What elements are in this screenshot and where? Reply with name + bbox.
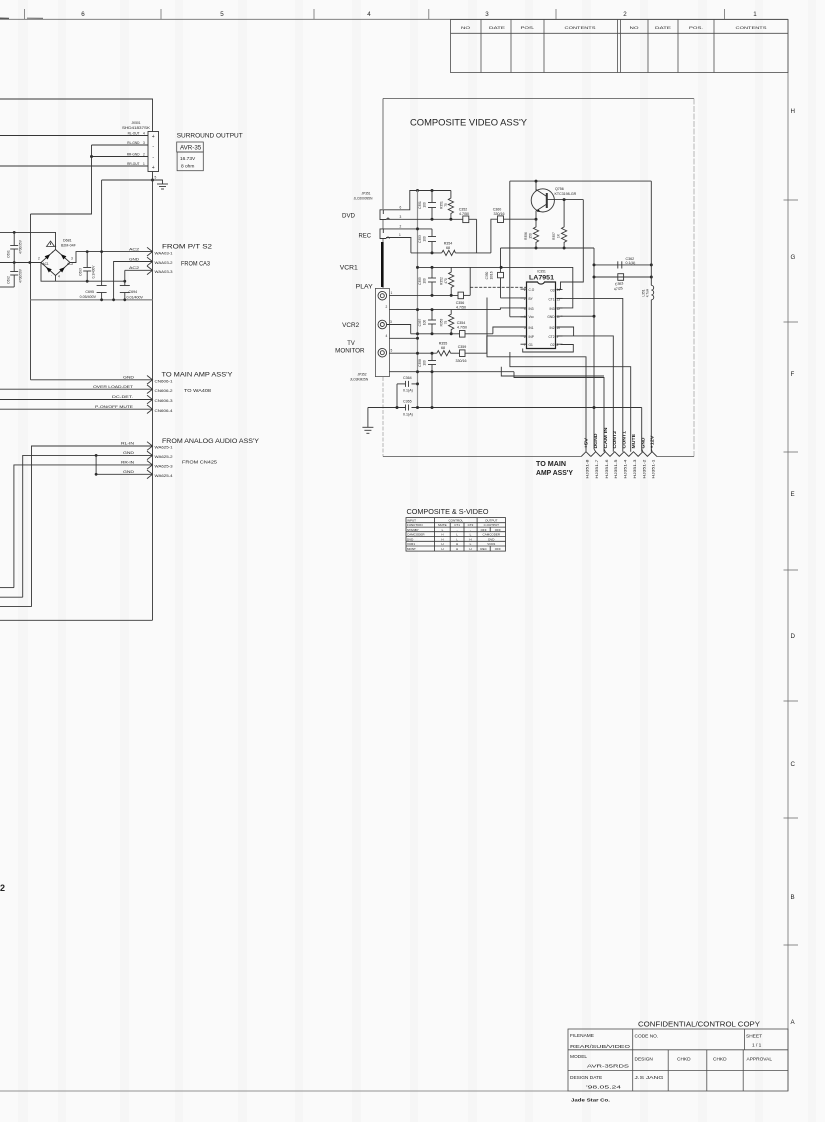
svg-text:2: 2 (38, 257, 40, 261)
svg-text:CT2: CT2 (468, 523, 474, 527)
wire gnd bus right drop (593, 248, 595, 449)
wire R354 to C360 (491, 219, 498, 253)
capacitor C355 (418, 277, 436, 285)
svg-text:FROM P/T S2: FROM P/T S2 (162, 243, 213, 250)
warning triangle (47, 241, 55, 247)
svg-text:AC1: AC1 (43, 262, 49, 266)
wire DC-DET (0, 399, 153, 401)
svg-text:CAMCODER: CAMCODER (483, 533, 501, 537)
svg-text:75: 75 (444, 321, 448, 325)
svg-text:IN2: IN2 (550, 326, 555, 330)
transistor Q756 (531, 181, 554, 219)
wire RL-IN (32, 446, 153, 607)
svg-text:IN3: IN3 (529, 307, 534, 311)
svg-text:J.S JANG: J.S JANG (635, 1075, 664, 1081)
svg-text:CONTENTS: CONTENTS (736, 26, 768, 30)
svg-text:SHEET: SHEET (746, 1034, 762, 1040)
pin 5 stub (152, 172, 154, 181)
junction (90, 155, 93, 158)
revision table (451, 20, 789, 73)
svg-text:3: 3 (390, 320, 392, 324)
svg-text:0.1/400V: 0.1/400V (92, 265, 96, 279)
svg-text:+12V: +12V (650, 435, 655, 448)
rail R1 (417, 191, 419, 408)
svg-text:TO MAIN AMP ASS'Y: TO MAIN AMP ASS'Y (162, 372, 233, 379)
connector WA625 chevrons (147, 442, 153, 479)
GND long bus (368, 407, 406, 409)
svg-text:HJ351-2: HJ351-2 (642, 459, 646, 478)
svg-text:REAR/SUB/VIDEO: REAR/SUB/VIDEO (570, 1044, 630, 1050)
svg-text:KTC3198-GR: KTC3198-GR (555, 192, 577, 196)
shield cable bar (381, 242, 384, 287)
svg-text:4700/35V: 4700/35V (19, 239, 23, 254)
capacitor C358 (418, 359, 436, 367)
svg-text:H: H (441, 547, 443, 551)
svg-text:GND: GND (123, 470, 135, 474)
wire DGND from GND pin (561, 315, 595, 317)
svg-text:RL-IN: RL-IN (121, 442, 135, 446)
svg-text:HJ351-6: HJ351-6 (605, 459, 609, 478)
bridge rectifier D681 (38, 244, 73, 279)
svg-text:FROM ANALOG AUDIO ASS'Y: FROM ANALOG AUDIO ASS'Y (162, 438, 259, 445)
jack DVD (380, 210, 390, 220)
capacitor C351 (418, 201, 436, 209)
resistor R356 (524, 219, 539, 248)
svg-text:GND: GND (547, 315, 555, 319)
capacitor C350 (485, 271, 527, 298)
svg-text:G1: G1 (529, 343, 533, 347)
svg-text:C694: C694 (129, 290, 138, 294)
svg-text:C695: C695 (85, 290, 94, 294)
svg-text:SHD41837SK: SHD41837SK (122, 126, 151, 130)
wire REC pin1 (386, 238, 411, 253)
svg-text:COMPOSITE & S-VIDEO: COMPOSITE & S-VIDEO (407, 509, 490, 516)
svg-text:WA625-1: WA625-1 (155, 446, 173, 450)
RCA jack VCR2 (378, 320, 387, 329)
svg-text:68: 68 (441, 346, 445, 350)
left drop from top bus (509, 181, 511, 317)
top bus H1 (418, 190, 451, 192)
wire P-ON/OFF MUTE (0, 408, 153, 410)
wire bottom rail (0, 619, 153, 621)
bottom border line (0, 1090, 568, 1092)
wire GND chevron drop (641, 408, 643, 452)
collector top bus (510, 180, 652, 182)
svg-text:4: 4 (58, 275, 60, 279)
svg-text:DATE: DATE (489, 26, 506, 30)
svg-text:WAA03-2: WAA03-2 (155, 261, 173, 265)
svg-text:330/16: 330/16 (494, 212, 505, 216)
VCR2 pin2 bus (389, 309, 500, 311)
svg-text:GND: GND (640, 438, 645, 449)
svg-text:MUTE: MUTE (438, 523, 447, 527)
svg-text:CN606-1: CN606-1 (155, 380, 173, 384)
svg-text:-: - (457, 528, 458, 532)
svg-text:CHKD: CHKD (713, 1057, 727, 1063)
bottom power bus (31, 299, 153, 301)
svg-text:OFF: OFF (495, 547, 501, 551)
wire C695 vertical (101, 180, 103, 286)
svg-text:OFF: OFF (481, 528, 487, 532)
svg-text:O2: O2 (550, 343, 554, 347)
svg-text:WA625-2: WA625-2 (155, 455, 173, 459)
svg-text:POS.: POS. (689, 26, 703, 30)
switching table (406, 518, 506, 552)
svg-text:CONT1: CONT1 (622, 430, 627, 448)
capacitor C357 (418, 318, 436, 326)
svg-text:AVR-35RDS: AVR-35RDS (587, 1064, 629, 1070)
svg-text:TO MAIN: TO MAIN (536, 461, 566, 468)
wire gnd step (31, 145, 92, 214)
wire bottom bus drop (514, 372, 604, 452)
svg-text:0.1(A): 0.1(A) (626, 261, 636, 265)
svg-text:3: 3 (485, 11, 489, 18)
svg-text:CONT2: CONT2 (612, 430, 617, 448)
labels CN606 pins (155, 380, 173, 414)
svg-text:JP352: JP352 (357, 373, 366, 377)
svg-text:DVD: DVD (342, 213, 356, 220)
wire R354 bus (411, 252, 442, 254)
capacitor C356 (456, 292, 470, 309)
wire net labels WA625 (121, 442, 135, 474)
svg-text:100: 100 (422, 360, 426, 366)
wire C356 up (469, 267, 471, 295)
capacitor C363 (614, 274, 624, 292)
svg-text:1: 1 (55, 244, 57, 248)
svg-text:VCR1: VCR1 (340, 265, 359, 272)
svg-text:CAMCODER: CAMCODER (407, 533, 425, 537)
wire AC1 (0, 262, 41, 264)
wire bottom left (0, 286, 14, 288)
svg-text:4700/50V: 4700/50V (19, 268, 23, 283)
svg-text:OUTPUT: OUTPUT (485, 519, 498, 523)
svg-text:D681: D681 (63, 239, 72, 243)
labels WA625 pins (155, 446, 173, 479)
svg-text:FROM CN425: FROM CN425 (182, 460, 217, 466)
IC pin stubs (521, 289, 563, 344)
wire RL-OUT (0, 135, 148, 137)
svg-text:'98.05.24: '98.05.24 (586, 1085, 622, 1091)
svg-text:HJ351-3: HJ351-3 (633, 459, 637, 478)
svg-text:10/16: 10/16 (489, 271, 493, 279)
rotated pin labels HJ351 (586, 459, 656, 478)
C363 bus (594, 276, 651, 278)
ground symbol (153, 180, 169, 189)
svg-text:3: 3 (71, 257, 73, 261)
emitter junction (535, 218, 538, 221)
svg-text:RL-GND: RL-GND (127, 141, 140, 145)
svg-text:WA625-3: WA625-3 (155, 465, 173, 469)
wire RL-GND (92, 144, 149, 146)
svg-text:8 ohm: 8 ohm (181, 164, 194, 170)
svg-text:DATE: DATE (655, 26, 672, 30)
connector JP352 (350, 373, 369, 382)
emitter ground bus (501, 247, 595, 249)
wire AC2 chevron3 (125, 269, 153, 271)
svg-text:6: 6 (81, 11, 85, 18)
svg-text:E: E (791, 491, 795, 498)
svg-text:C.OUTPUT: C.OUTPUT (484, 523, 500, 527)
svg-text:INP: INP (529, 335, 534, 339)
svg-text:H: H (441, 542, 443, 546)
C364 bus (397, 383, 406, 385)
svg-text:2: 2 (386, 305, 388, 309)
capacitor C691 (7, 232, 23, 262)
connector JP351 (354, 192, 373, 201)
svg-text:REC: REC (480, 547, 487, 551)
svg-text:WAA03-1: WAA03-1 (155, 252, 173, 256)
svg-text:C362: C362 (626, 257, 635, 261)
svg-text:WA625-4: WA625-4 (155, 474, 173, 478)
wire stubs above chevrons (594, 449, 652, 452)
revision table headers (461, 26, 767, 30)
capacitor C354 (457, 321, 493, 337)
svg-text:C693: C693 (79, 268, 83, 276)
svg-text:LA7951: LA7951 (529, 275, 555, 282)
wire AC top (0, 232, 56, 249)
pin number labels (386, 205, 402, 352)
connector WAA03 chevrons (147, 247, 153, 274)
wire DVD pin6 (386, 191, 418, 210)
svg-text:0.01/400V: 0.01/400V (127, 296, 144, 300)
capacitor C359 (456, 345, 487, 363)
svg-text:HJ351-1: HJ351-1 (652, 459, 656, 478)
svg-text:POS.: POS. (521, 26, 535, 30)
svg-text:IC351: IC351 (537, 270, 546, 274)
svg-text:NO: NO (461, 26, 470, 30)
junction pin5 (151, 179, 154, 182)
wire IN2 bracket (557, 327, 574, 336)
nest seg C CAM IN (501, 367, 604, 376)
svg-text:CONTROL: CONTROL (448, 519, 463, 523)
svg-text:FUNCTION: FUNCTION (407, 523, 423, 527)
svg-text:FILENAME: FILENAME (570, 1033, 594, 1039)
wire +5V riser (487, 298, 586, 452)
svg-text:JLO200095N: JLO200095N (354, 197, 373, 201)
wire minus bus (41, 263, 125, 282)
svg-text:OFF: OFF (495, 528, 501, 532)
svg-text:IN1: IN1 (529, 326, 534, 330)
svg-text:CHKD: CHKD (677, 1057, 691, 1063)
svg-text:DVD: DVD (407, 537, 414, 541)
wire Vcc feed (510, 316, 527, 318)
svg-text:2: 2 (623, 11, 627, 18)
svg-text:Q756: Q756 (555, 187, 564, 191)
svg-text:1: 1 (399, 233, 401, 237)
capacitor C694 (120, 270, 144, 300)
svg-text:75: 75 (444, 203, 448, 207)
inductor L351 (642, 285, 654, 299)
main right rail (152, 180, 154, 620)
svg-text:5: 5 (155, 176, 157, 180)
svg-text:MODEL: MODEL (570, 1054, 587, 1060)
jack REC (380, 229, 390, 239)
rotated net labels (584, 428, 655, 449)
svg-text:CT1: CT1 (548, 297, 554, 301)
svg-text:AC2: AC2 (129, 266, 139, 270)
svg-text:R355: R355 (439, 342, 448, 346)
svg-text:H: H (456, 547, 458, 551)
top ruler line (0, 18, 788, 20)
svg-text:H: H (441, 533, 443, 537)
svg-text:14: 14 (557, 288, 561, 292)
connector CN606 chevrons (147, 376, 153, 414)
capacitor C352 (459, 208, 477, 223)
svg-text:5: 5 (220, 11, 224, 18)
svg-text:H: H (469, 537, 471, 541)
wire DVD pin3 bus (386, 218, 463, 220)
svg-text:O3: O3 (550, 289, 554, 293)
wire RR-OUT (0, 165, 148, 167)
svg-text:2: 2 (0, 883, 5, 893)
svg-text:OVER LOAD-DET: OVER LOAD-DET (93, 385, 133, 389)
base to O3 pin14 (557, 200, 584, 290)
ground symbol composite (362, 408, 373, 434)
svg-text:RL-OUT: RL-OUT (128, 132, 140, 136)
wire GND chevron2 (114, 262, 153, 300)
svg-text:470: 470 (444, 278, 448, 284)
svg-text:0.05/400V: 0.05/400V (80, 295, 97, 299)
svg-text:+5V: +5V (584, 438, 589, 449)
svg-text:16.73V: 16.73V (180, 156, 196, 162)
svg-text:C.O: C.O (529, 288, 535, 292)
label box AVR-35 (177, 142, 204, 152)
svg-text:68: 68 (446, 246, 450, 250)
svg-text:+: + (152, 165, 155, 171)
svg-text:VCR2: VCR2 (342, 322, 360, 329)
svg-text:1: 1 (753, 11, 757, 18)
svg-text:Vcc: Vcc (529, 315, 535, 319)
RCA bottom bus (389, 371, 514, 373)
capacitor C353 (418, 235, 436, 243)
svg-text:CT2: CT2 (548, 335, 554, 339)
PLAY signal bus (389, 294, 458, 296)
svg-text:4: 4 (367, 11, 371, 18)
pin4 line (389, 337, 417, 339)
wire C359 to INP (487, 336, 527, 353)
wire C352 down (476, 219, 478, 253)
svg-text:DVD: DVD (488, 537, 495, 541)
svg-text:H: H (441, 537, 443, 541)
wire CONT1 from CT1 (557, 298, 623, 451)
svg-text:GND: GND (129, 257, 140, 261)
wire GND WA625-2 (23, 455, 153, 597)
right border line (787, 19, 789, 1091)
svg-text:-: - (51, 273, 52, 277)
svg-text:1: 1 (524, 288, 526, 292)
wire C364 left drop (396, 384, 398, 408)
nest seg A (523, 345, 574, 353)
svg-text:INPUT: INPUT (407, 519, 416, 523)
svg-text:C692: C692 (7, 276, 11, 284)
svg-text:1: 1 (391, 291, 393, 295)
svg-text:5: 5 (391, 348, 393, 352)
svg-text:SURROUND OUTPUT: SURROUND OUTPUT (177, 132, 243, 139)
svg-text:C356: C356 (456, 301, 465, 305)
C354 bus (411, 333, 460, 335)
svg-text:HJ351-8: HJ351-8 (586, 459, 590, 478)
svg-text:H: H (456, 542, 458, 546)
scan smudges top-left (0, 17, 9, 19)
svg-text:6: 6 (400, 205, 402, 209)
svg-text:DC-DET.: DC-DET. (112, 395, 133, 399)
wire +12V drop (650, 181, 652, 285)
svg-text:1 / 1: 1 / 1 (752, 1043, 762, 1049)
IC351 LA7951 (524, 270, 561, 349)
svg-text:C: C (791, 761, 796, 768)
svg-text:REC: REC (359, 233, 372, 240)
title block (568, 1029, 788, 1091)
svg-text:G: G (791, 254, 796, 261)
svg-text:JP351: JP351 (361, 192, 370, 196)
right border zone ticks (784, 200, 799, 945)
resistor R351 (440, 191, 454, 220)
svg-text:CONFIDENTIAL/CONTROL COPY: CONFIDENTIAL/CONTROL COPY (638, 1020, 760, 1029)
wire OVER LOAD-DET (0, 388, 153, 390)
resistor R352 (440, 267, 454, 295)
resistor R353 (440, 310, 454, 334)
svg-text:C691: C691 (7, 250, 11, 258)
svg-text:0.1(A): 0.1(A) (403, 413, 413, 417)
wire GND WA625-4 (96, 455, 152, 474)
C362 bus (594, 264, 651, 266)
wire REC pin2 (386, 228, 432, 230)
svg-text:JLO3KM25N: JLO3KM25N (350, 378, 369, 382)
svg-text:DGND: DGND (593, 434, 598, 449)
svg-text:TO WA408: TO WA408 (184, 388, 211, 394)
svg-text:STANBY: STANBY (407, 528, 419, 532)
svg-text:1: 1 (143, 162, 145, 166)
svg-text:WAA03-3: WAA03-3 (155, 270, 173, 274)
TV MONITOR bus (389, 352, 436, 354)
svg-text:3: 3 (143, 141, 145, 145)
svg-text:R354: R354 (444, 242, 453, 246)
left rail (30, 214, 32, 380)
RCA jack TV MONITOR (378, 348, 387, 357)
wire GND CN606-1 (31, 379, 153, 381)
svg-text:JK501: JK501 (131, 121, 140, 125)
assembly box (383, 99, 694, 457)
svg-text:DESIGN DATE: DESIGN DATE (570, 1075, 602, 1081)
RCA jack group box (375, 288, 389, 376)
svg-text:HJ351-7: HJ351-7 (595, 459, 599, 478)
wire to C350 (500, 248, 502, 272)
svg-text:-: - (470, 528, 471, 532)
svg-text:APPROVAL: APPROVAL (747, 1057, 773, 1063)
svg-text:RR-OUT: RR-OUT (127, 162, 139, 166)
svg-text:+: + (152, 134, 155, 140)
wire top bus (0, 99, 153, 132)
svg-text:C364: C364 (403, 376, 412, 380)
svg-text:B2M-04F: B2M-04F (61, 244, 77, 248)
wire CONT2 from CT2 (557, 336, 614, 452)
wire net labels CN606 (93, 376, 135, 410)
ruler zone numbers (81, 11, 757, 18)
svg-text:CONTENTS: CONTENTS (565, 26, 597, 30)
RCA jack PLAY (378, 291, 387, 300)
svg-text:B: B (791, 894, 795, 901)
svg-text:4.7/50: 4.7/50 (459, 212, 469, 216)
svg-text:HJ351-5: HJ351-5 (614, 459, 618, 478)
svg-text:RR-GND: RR-GND (127, 153, 140, 157)
svg-text:4: 4 (143, 132, 145, 136)
svg-text:CAM IN: CAM IN (603, 428, 608, 449)
svg-text:330/16: 330/16 (456, 359, 467, 363)
svg-text:AC2: AC2 (129, 248, 139, 252)
svg-text:HJ351-4: HJ351-4 (624, 459, 628, 478)
capacitor C360 (493, 208, 536, 223)
rail R2 segments with caps (431, 191, 433, 408)
